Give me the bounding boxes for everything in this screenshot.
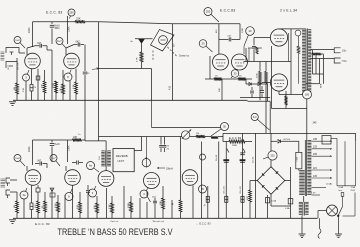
svg-text:REVERB: REVERB: [116, 154, 128, 158]
svg-text:TREBLE ‘N BASS 50 REVERB S.V: TREBLE ‘N BASS 50 REVERB S.V: [58, 227, 173, 237]
svg-text:0.5A: 0.5A: [272, 200, 277, 203]
svg-text:450v: 450v: [55, 28, 61, 30]
svg-text:NFB: NFB: [321, 83, 323, 88]
svg-text:3.3K: 3.3K: [109, 204, 111, 209]
svg-text:470K: 470K: [55, 203, 57, 208]
svg-text:.047: .047: [75, 42, 80, 44]
svg-text:22K: 22K: [76, 17, 81, 21]
svg-text:100K: 100K: [242, 27, 244, 33]
svg-text:100+100: 100+100: [224, 185, 226, 194]
svg-text:#foot sw: #foot sw: [110, 220, 119, 223]
svg-text:NTC: NTC: [247, 195, 249, 200]
svg-text:1+2: 1+2: [15, 38, 20, 42]
svg-text:220K: 220K: [128, 202, 130, 208]
svg-text:1M: 1M: [196, 133, 199, 135]
svg-text:UNIT: UNIT: [117, 159, 124, 163]
svg-text:100K: 100K: [67, 26, 70, 32]
svg-text:7.5Ω: 7.5Ω: [342, 60, 347, 63]
svg-text:1.5A: 1.5A: [351, 186, 356, 189]
svg-text:2 x E.L.34: 2 x E.L.34: [280, 9, 297, 13]
svg-text:E.C.C. 83: E.C.C. 83: [46, 11, 63, 15]
svg-text:22K: 22K: [73, 136, 78, 139]
svg-text:1+2: 1+2: [15, 156, 20, 160]
svg-text:50pf: 50pf: [152, 197, 156, 199]
svg-text:.047: .047: [37, 43, 42, 45]
svg-text:100K: 100K: [67, 145, 70, 151]
svg-text:245: 245: [313, 138, 318, 141]
svg-text:6.3: 6.3: [253, 115, 257, 119]
svg-text:(1.5A): (1.5A): [326, 183, 332, 186]
svg-text:2.2K: 2.2K: [23, 87, 25, 92]
svg-text:6.3V: 6.3V: [311, 193, 316, 195]
svg-text:470K: 470K: [53, 82, 55, 88]
svg-text:180: 180: [305, 92, 310, 96]
svg-text:0.5A: 0.5A: [285, 207, 290, 210]
svg-text:325: 325: [270, 153, 275, 157]
svg-text:2.2K: 2.2K: [73, 84, 75, 89]
svg-text:205: 205: [313, 153, 318, 156]
svg-text:E.C.C.83: E.C.C.83: [220, 9, 235, 13]
svg-text:16+16: 16+16: [216, 154, 218, 161]
svg-text:220K: 220K: [28, 27, 31, 33]
svg-text:56K: 56K: [219, 88, 221, 92]
svg-text:220K: 220K: [28, 146, 31, 152]
svg-text:E.C.C. 83: E.C.C. 83: [35, 222, 50, 226]
svg-text:*Reverb unit: *Reverb unit: [152, 220, 164, 223]
svg-text:4.7K: 4.7K: [137, 57, 139, 62]
svg-text:250V: 250V: [351, 190, 356, 192]
svg-text:.047: .047: [37, 161, 42, 163]
svg-text:32+32: 32+32: [253, 156, 255, 163]
svg-text:115: 115: [313, 167, 317, 170]
svg-text:180K: 180K: [232, 145, 238, 147]
svg-text:100+100: 100+100: [240, 185, 242, 194]
svg-text:10K: 10K: [160, 201, 162, 205]
svg-text:225: 225: [313, 146, 318, 149]
svg-text:47K: 47K: [42, 84, 44, 88]
svg-text:250: 250: [69, 10, 74, 14]
svg-text:100mV: 100mV: [166, 168, 174, 170]
svg-text:Drawn by: Drawn by: [179, 55, 190, 58]
svg-text:BY100: BY100: [284, 139, 291, 141]
svg-text:15Ω: 15Ω: [342, 49, 347, 52]
svg-text:6+7: 6+7: [51, 156, 56, 160]
svg-text:105: 105: [313, 175, 318, 178]
svg-text:250: 250: [206, 9, 211, 13]
svg-text:T344: T344: [297, 156, 299, 162]
svg-text:E.C.C.83: E.C.C.83: [229, 136, 241, 140]
svg-text:470K: 470K: [257, 73, 259, 78]
svg-text:415: 415: [169, 85, 172, 90]
svg-text:68K 68K: 68K 68K: [17, 62, 19, 70]
svg-text:2.2K: 2.2K: [77, 204, 79, 209]
svg-text:345: 345: [313, 122, 318, 125]
svg-text:8+16: 8+16: [55, 144, 61, 146]
svg-text:6+7: 6+7: [57, 39, 62, 43]
svg-text:8+16: 8+16: [55, 26, 61, 28]
svg-text:0.5A: 0.5A: [339, 186, 344, 189]
svg-text:GUIT: GUIT: [8, 64, 10, 70]
svg-text:← E.C.C. 83: ← E.C.C. 83: [196, 222, 211, 226]
svg-text:1M: 1M: [14, 205, 16, 208]
